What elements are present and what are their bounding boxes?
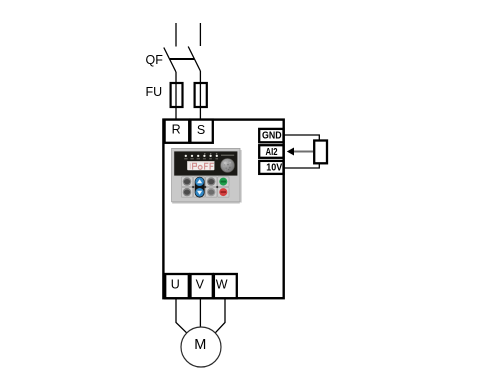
keypad black display section (174, 151, 237, 175)
wire 10V to potentiometer bottom (284, 163, 320, 168)
wire L1 blade to terminal R (175, 72, 177, 120)
svg-text:M: M (194, 337, 206, 353)
svg-text:V: V (196, 277, 205, 291)
keypad knob (221, 159, 235, 173)
svg-text:GND: GND (262, 130, 282, 142)
terminal R (165, 120, 190, 143)
keypad button area (181, 176, 230, 197)
keypad separator diamonds (192, 186, 219, 189)
wire W to motor (215, 298, 225, 333)
wire phase L2 top (199, 23, 201, 46)
terminal 10V (259, 161, 283, 174)
breaker QF pole 1 blade (164, 48, 176, 73)
wiper arrowhead into AI2 (287, 148, 294, 156)
keypad status LEDs (184, 153, 218, 159)
keypad button OK (207, 188, 215, 196)
keypad button STOP (219, 188, 227, 196)
fuse FU1 (171, 83, 183, 107)
keypad button FUNC (183, 188, 191, 196)
keypad button RUN (219, 178, 227, 186)
potentiometer wiper wire (293, 151, 313, 153)
terminal GND (259, 129, 283, 142)
svg-text:10V: 10V (266, 162, 282, 174)
keypad LED display (187, 161, 214, 170)
svg-text:QF: QF (146, 53, 164, 67)
keypad button DOWN (195, 188, 204, 197)
svg-text:U: U (171, 277, 180, 291)
svg-text:R: R (172, 123, 181, 137)
terminal AI2 (259, 145, 283, 158)
svg-text:FU: FU (146, 85, 163, 99)
keypad button PRG (183, 177, 191, 185)
terminal U (165, 274, 189, 298)
fuse FU2 (195, 83, 207, 107)
breaker QF pole 2 blade (188, 47, 200, 72)
wire phase L1 top (175, 23, 177, 47)
svg-text:AI2: AI2 (266, 146, 278, 158)
wire V to motor (199, 298, 201, 327)
keypad panel frame (172, 148, 240, 201)
motor M (181, 327, 221, 367)
keypad button UP (195, 177, 204, 186)
VFD enclosure box (163, 120, 283, 299)
keypad brand text (221, 155, 234, 156)
terminal W (214, 274, 237, 298)
keypad button MODE (207, 177, 215, 185)
svg-text:W: W (216, 277, 228, 291)
terminal V (191, 274, 213, 298)
breaker QF linkage bar (170, 58, 194, 60)
potentiometer body (314, 141, 327, 164)
wire L2 blade to terminal S (199, 71, 201, 120)
svg-text:S: S (197, 123, 205, 137)
terminal S (190, 120, 212, 143)
wire U to motor (176, 298, 187, 333)
keypad arrows capsule (195, 177, 205, 198)
wire GND to potentiometer top (284, 135, 320, 141)
